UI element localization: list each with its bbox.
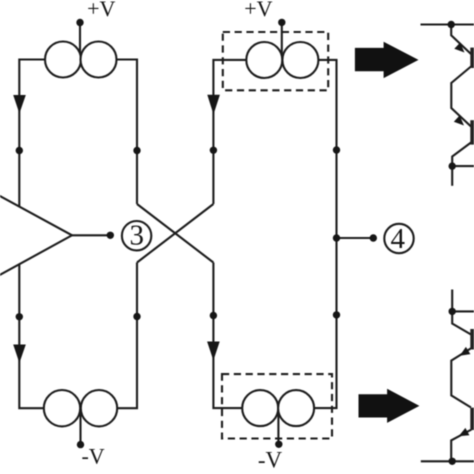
arrowhead into Q1 base (454, 43, 464, 53)
top-right output stage wires (421, 25, 474, 186)
op-amp U1 (cropped at left edge) (0, 172, 72, 300)
junction dot rail A row1 (16, 147, 23, 154)
current direction arrow on rail A top (13, 95, 26, 114)
wire rail B upper: top-left source right branch down to crossover (99, 60, 138, 205)
transistor Q3 base bar (cropped) (470, 329, 474, 350)
current direction arrow on rail M bottom (207, 342, 220, 361)
node dot +V middle (278, 19, 285, 26)
wire stub below (451, 166, 453, 186)
current source pair CS2 (top-middle, dashed box) (246, 42, 318, 78)
junction dot rail B row2 (133, 313, 140, 320)
current source pair CS4 (bottom-middle, dashed box) (242, 390, 314, 426)
junction dot rail C row1 (333, 146, 340, 153)
junction dot top-right (448, 21, 455, 28)
node dot -V middle (275, 441, 282, 448)
wire crossover diagonal M-to-B (137, 204, 213, 263)
current direction arrow on rail A bottom (13, 345, 26, 364)
wire Q4 emitter down (451, 430, 471, 462)
wire top-right horizontal (421, 23, 474, 25)
bottom-right output stage wires (421, 290, 474, 462)
junction dot rail B row1 (133, 147, 140, 154)
svg-text:4: 4 (391, 223, 406, 255)
wire stub above (451, 290, 453, 312)
node dot op-amp output (node 3) (107, 232, 114, 239)
current source pair CS1 (top-left) (45, 42, 117, 78)
transistor Q1 base bar (cropped) (470, 48, 474, 68)
junction dot rail M row2 (210, 312, 217, 319)
wire node 4 stub (337, 237, 374, 239)
svg-text:+V: +V (87, 0, 115, 21)
svg-text:+V: +V (244, 0, 272, 21)
wire Q1 emitter to Q2 (451, 67, 471, 127)
node dot -V left (77, 441, 84, 448)
current source pair CS3 (bottom-left) (44, 390, 117, 426)
wire bottom-right horizontal (421, 460, 474, 462)
wire Q2 emitter down (452, 143, 471, 167)
junction dot rail A row2 (16, 313, 23, 320)
block arrow bottom (implementation pointer) (359, 389, 420, 423)
transistor Q4 base bar (cropped) (470, 408, 474, 430)
wire mid-right horizontal at node (452, 310, 474, 312)
wire rail M upper: middle-top source left branch to crossover (213, 60, 264, 204)
wire +V stub left block (79, 23, 81, 61)
node dot stub end (node 4) (370, 234, 377, 241)
junction dot mid-right lower (449, 308, 456, 315)
dashed box around CS4 (222, 374, 332, 438)
arrowhead out of Q4 (459, 428, 470, 436)
node 4 circled label (384, 223, 413, 255)
wire -V stub bottom-left block (79, 408, 81, 444)
wire rail C: middle-top source right branch down to bottom-middle source (296, 60, 337, 408)
node dot +V left (76, 19, 83, 26)
junction dot rail M row1 (210, 147, 217, 154)
svg-text:-V: -V (81, 444, 104, 469)
dashed box around CS2 (223, 32, 328, 90)
junction dot mid-right upper (449, 162, 456, 169)
wire left rail A: top-left source to bottom-left source (19, 60, 63, 409)
junction dot bottom-right (449, 458, 456, 465)
transistor Q2 base bar (cropped) (470, 120, 474, 144)
wire rail M lower: crossover down to bottom-middle source (213, 263, 260, 409)
wire to Q3 (452, 311, 471, 334)
svg-text:-V: -V (258, 448, 283, 473)
wire crossover diagonal B-to-M (137, 204, 213, 263)
wire to Q1 base (451, 25, 471, 55)
arrowhead out of Q3 (460, 347, 471, 356)
svg-text:3: 3 (130, 220, 145, 252)
junction dot rail C row2 (333, 311, 340, 318)
block arrow top (implementation pointer) (355, 42, 419, 78)
current direction arrow on rail M top (207, 95, 220, 115)
wire mid-right horizontal at node (452, 165, 474, 167)
wire -V stub bottom-middle block (277, 408, 279, 444)
node 3 circled label (122, 220, 151, 252)
wire +V stub middle block (281, 22, 283, 60)
wire Q3 to Q4 (451, 348, 471, 408)
junction dot rail C at node 4 (333, 234, 340, 241)
arrowhead into Q2 base (454, 116, 464, 126)
wire rail B lower: crossover down to bottom-left source (99, 263, 137, 409)
wire op-amp output (72, 234, 110, 236)
